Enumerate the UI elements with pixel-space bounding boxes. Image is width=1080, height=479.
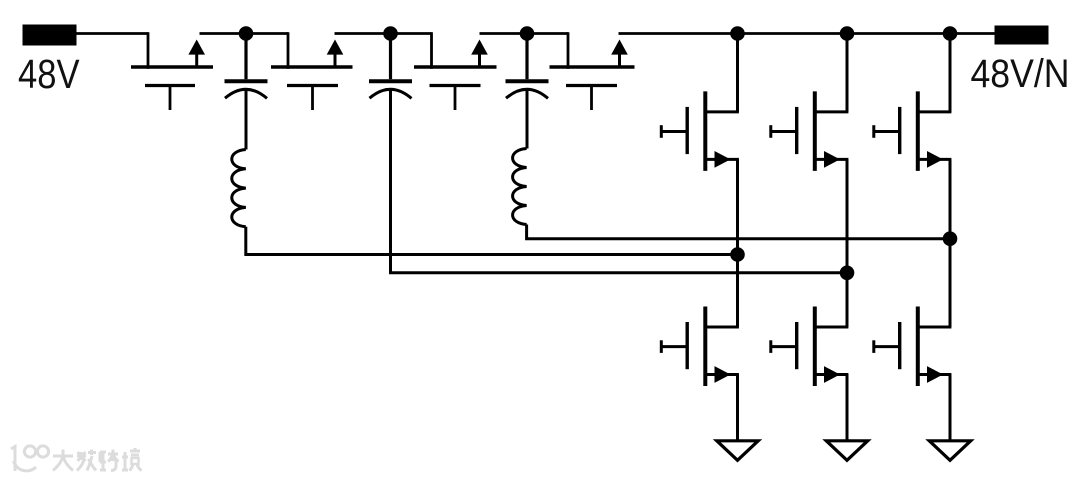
svg-text:48V: 48V: [18, 51, 80, 97]
svg-text:48V/N: 48V/N: [971, 52, 1070, 96]
